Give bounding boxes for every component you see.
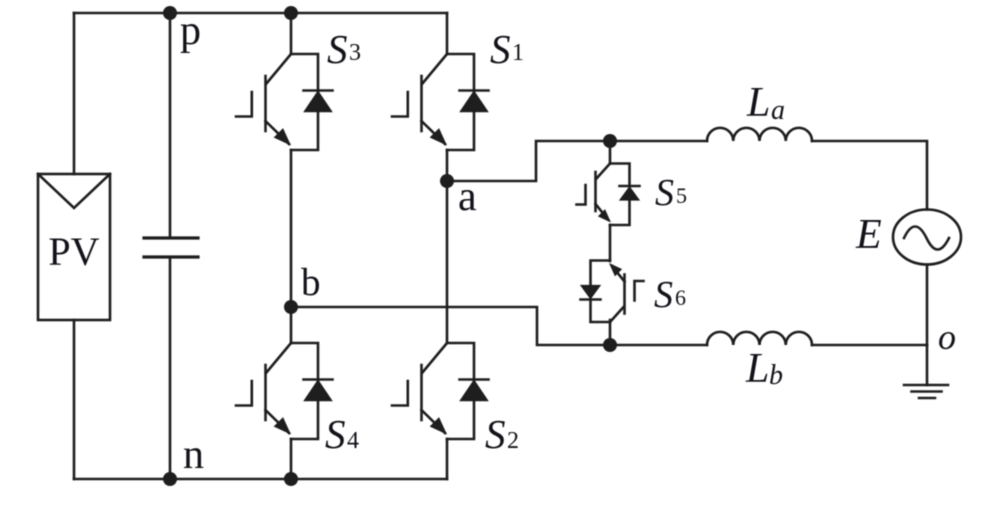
wire bypass bottom to inductor Lb (610, 344, 707, 347)
PV panel (38, 174, 110, 320)
wire to inductor La (610, 140, 707, 143)
wire bottom rail n (74, 478, 447, 481)
svg-text:a: a (458, 174, 477, 220)
svg-text:L: L (745, 346, 769, 392)
wire node b to S4 (290, 307, 293, 343)
svg-text:6: 6 (675, 285, 686, 310)
transistor S5 (IGBT with antiparallel diode) (577, 164, 640, 226)
sine wave inside E (904, 227, 949, 250)
wire S3 leg top (290, 13, 293, 54)
wire left dc link down to PV (73, 13, 76, 174)
node n junction dot (163, 472, 177, 486)
svg-text:o: o (938, 317, 956, 357)
svg-text:S: S (485, 411, 506, 457)
transistor S6 (IGBT with antiparallel diode, rotated 180) (581, 261, 644, 323)
svg-text:b: b (301, 261, 321, 304)
wire S2 to bottom rail (446, 439, 449, 479)
wire S1 leg top (446, 13, 449, 54)
transistor S4 (IGBT with antiparallel diode) (236, 343, 333, 439)
wire Lb to node o (812, 344, 927, 347)
svg-text:S: S (490, 26, 511, 72)
svg-text:E: E (855, 212, 882, 258)
capacitor C (144, 238, 198, 257)
label La (746, 80, 785, 126)
wire capacitor top leg (169, 13, 172, 238)
wire S3 to node b (290, 150, 293, 307)
wire S4 to bottom rail (290, 439, 293, 479)
svg-text:1: 1 (512, 40, 524, 66)
svg-text:b: b (769, 360, 783, 391)
inductor La (707, 128, 812, 141)
svg-text:S: S (325, 411, 346, 457)
svg-text:2: 2 (507, 428, 519, 454)
transistor S3 (IGBT with antiparallel diode) (236, 54, 333, 150)
svg-text:a: a (771, 95, 785, 126)
node b junction dot (284, 300, 298, 314)
bypass top junction dot (603, 134, 617, 148)
label Lb (745, 346, 783, 392)
svg-text:3: 3 (349, 40, 361, 66)
svg-text:S: S (327, 26, 348, 72)
wire top rail p (74, 12, 447, 15)
svg-text:PV: PV (48, 229, 99, 274)
node S4 bottom junction dot (284, 472, 298, 486)
node S3 top junction dot (284, 6, 298, 20)
transistor S1 (IGBT with antiparallel diode) (392, 54, 489, 150)
node a junction dot (440, 174, 454, 188)
wire PV bottom to bottom rail (73, 320, 76, 479)
svg-text:n: n (183, 432, 204, 478)
wire La to E (812, 141, 927, 210)
wire node b to bypass branch bottom (291, 307, 610, 345)
wire between S5 and S6 (609, 225, 612, 261)
wire capacitor bottom leg (169, 257, 172, 479)
node p junction dot (163, 6, 177, 20)
ground (904, 345, 948, 398)
svg-text:L: L (746, 80, 770, 126)
wire bypass top stub (609, 141, 612, 164)
bypass bottom junction dot (603, 338, 617, 352)
wire bypass bottom stub (609, 320, 612, 345)
wire node a to bypass branch (447, 141, 610, 181)
svg-text:4: 4 (347, 428, 359, 454)
svg-text:S: S (654, 274, 673, 316)
svg-text:p: p (180, 8, 201, 54)
svg-text:S: S (655, 172, 674, 214)
wire E to node o (926, 265, 929, 346)
transistor S2 (IGBT with antiparallel diode) (392, 343, 489, 439)
inductor Lb (707, 332, 812, 345)
source E (ac source) (893, 210, 961, 265)
wire S1 to node a and down to S2 (446, 150, 449, 343)
svg-text:5: 5 (676, 183, 687, 208)
